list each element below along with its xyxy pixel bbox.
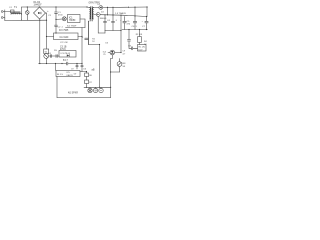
svg-text:D3: D3 <box>106 43 109 45</box>
svg-text:25: 25 <box>103 54 106 56</box>
svg-text:T1: T1 <box>14 6 18 9</box>
cap C7 <box>145 17 148 30</box>
svg-text:aB: aB <box>92 69 95 72</box>
svg-text:C1: C1 <box>48 15 52 17</box>
cap at x105 <box>104 15 107 31</box>
svg-text:IC1: IC1 <box>69 17 73 19</box>
svg-text:RL LN: RL LN <box>139 47 146 49</box>
svg-text:IC3 7905: IC3 7905 <box>59 30 69 32</box>
svg-text:R8: R8 <box>123 63 127 65</box>
svg-text:C3 1B: C3 1B <box>60 46 67 48</box>
lower rail <box>39 63 67 65</box>
svg-text:0V: 0V <box>74 74 77 76</box>
cap C6 <box>133 16 136 30</box>
svg-text:1N4007: 1N4007 <box>34 5 43 7</box>
wire from box C right <box>80 71 87 73</box>
wire <box>46 58 48 63</box>
node dot <box>39 6 40 7</box>
resistor R6 <box>85 73 89 77</box>
LED D3 <box>110 50 115 55</box>
svg-text:F1: F1 <box>10 7 13 9</box>
transformer T1 <box>11 7 22 20</box>
wire bridge minus drop <box>39 19 41 20</box>
capacitor C1 <box>26 7 30 20</box>
svg-text:C4: C4 <box>48 53 52 55</box>
svg-text:4700: 4700 <box>58 15 63 17</box>
choke vertical from T2 <box>88 21 90 44</box>
svg-text:C9: C9 <box>71 69 74 71</box>
capacitor C2 series <box>55 19 58 33</box>
svg-text:C2 1.5F: C2 1.5F <box>60 42 68 44</box>
node dot <box>55 6 56 7</box>
AC plug P1 <box>1 10 5 19</box>
capacitor on x129 <box>127 39 130 41</box>
bridge rectifier D1-D4 <box>34 7 46 19</box>
vertical x129 <box>128 30 130 40</box>
wire x99.5 down <box>99 45 101 88</box>
cap at x113 <box>112 15 115 31</box>
svg-text:1K: 1K <box>92 41 95 43</box>
wire bridge plus <box>46 12 47 14</box>
meter M <box>93 88 97 92</box>
vertical x121 <box>120 15 122 52</box>
wire stub to IC3 <box>47 36 54 38</box>
svg-text:IC5: IC5 <box>67 72 71 74</box>
wires LED row <box>108 52 110 54</box>
big box C <box>56 71 80 77</box>
potentiometer R8 <box>111 59 122 73</box>
series capacitor on rail <box>66 62 68 65</box>
cap drop x77 <box>76 64 78 66</box>
wire output row <box>49 55 59 57</box>
top rail right <box>103 6 148 9</box>
cap C5 <box>123 17 126 30</box>
svg-text:B 17: B 17 <box>63 60 68 62</box>
wire top rail <box>22 6 88 8</box>
fuse F1 <box>11 10 15 13</box>
partial top edge <box>84 86 111 88</box>
bottom rail <box>57 97 111 99</box>
svg-text:.1: .1 <box>115 20 118 22</box>
svg-text:M: M <box>95 89 97 93</box>
svg-text:IN 1.5: IN 1.5 <box>57 74 64 76</box>
svg-text:+: + <box>47 11 49 13</box>
IC1 regulator box <box>68 15 81 23</box>
second rail <box>100 14 122 17</box>
D1-D2 join vertical <box>107 7 109 14</box>
ground rail right <box>122 29 148 31</box>
wire <box>5 11 11 13</box>
svg-text:C4: C4 <box>107 20 111 22</box>
svg-text:D2: D2 <box>101 12 105 14</box>
IC2 wire loop <box>84 19 86 28</box>
wire y48 <box>129 47 132 49</box>
svg-text:47CK: 47CK <box>60 49 66 51</box>
vertical x82 <box>81 28 83 66</box>
stubs to circles <box>89 87 91 88</box>
rail y30.5 <box>105 30 121 32</box>
svg-text:C8: C8 <box>128 46 132 48</box>
svg-text:UA741: UA741 <box>67 74 74 77</box>
svg-text:470: 470 <box>127 24 131 26</box>
resistor R3 <box>139 30 141 37</box>
wire <box>97 16 99 33</box>
svg-text:R6: R6 <box>89 75 92 77</box>
LED down jog <box>111 55 113 59</box>
svg-text:D5: D5 <box>54 50 58 52</box>
vertical x110.6 <box>110 59 112 98</box>
node dot <box>55 19 56 20</box>
svg-text:C7: C7 <box>142 26 146 28</box>
svg-text:C2 .1: C2 .1 <box>58 27 64 29</box>
wire bottom return <box>4 18 6 21</box>
svg-text:D6: D6 <box>84 69 87 71</box>
lamp circle <box>44 54 49 59</box>
svg-text:DLY: DLY <box>139 49 144 51</box>
svg-text:R7: R7 <box>89 82 92 84</box>
speaker <box>99 88 103 92</box>
IC4 box <box>59 51 76 58</box>
svg-text:+: + <box>120 20 122 22</box>
capacitor plates <box>50 55 52 58</box>
resistor R7 <box>85 80 89 84</box>
lamp LP1 <box>62 17 66 21</box>
svg-text:C6 .1: C6 .1 <box>132 26 138 28</box>
capacitor plates on bus <box>85 37 88 39</box>
node dot <box>27 6 28 7</box>
diode D1 <box>94 6 103 10</box>
svg-text:1.5 TRACK: 1.5 TRACK <box>115 12 127 15</box>
capacitor C1 (filter) <box>55 7 58 19</box>
wire from IC3 right <box>78 36 82 38</box>
svg-text:+: + <box>142 21 144 23</box>
left edge down <box>56 77 58 98</box>
IC3 box <box>54 33 79 40</box>
wire x113 from top rail <box>112 7 114 15</box>
lamp in output <box>88 88 92 92</box>
wire from IC1 <box>80 18 85 20</box>
svg-text:5K: 5K <box>123 66 126 68</box>
svg-text:4Ω SPKR: 4Ω SPKR <box>68 93 78 95</box>
wire y44.5 <box>89 44 100 46</box>
wire <box>56 18 62 20</box>
wire vertical bus left <box>39 20 41 63</box>
svg-text:CA 3140: CA 3140 <box>60 36 70 39</box>
box C top feed <box>55 64 57 71</box>
transformer T2 <box>87 7 94 22</box>
relay box <box>138 45 147 52</box>
svg-text:7805F: 7805F <box>69 20 76 22</box>
wire <box>86 72 88 74</box>
diode D2 <box>94 13 101 17</box>
top rail drops <box>134 7 136 16</box>
svg-text:4.7: 4.7 <box>123 53 127 55</box>
svg-text:IC2 7905F: IC2 7905F <box>67 25 77 27</box>
switch S1 box <box>44 49 49 54</box>
capacitor plates <box>55 55 57 58</box>
svg-text:+: + <box>82 37 84 39</box>
svg-text:C9: C9 <box>123 51 126 53</box>
